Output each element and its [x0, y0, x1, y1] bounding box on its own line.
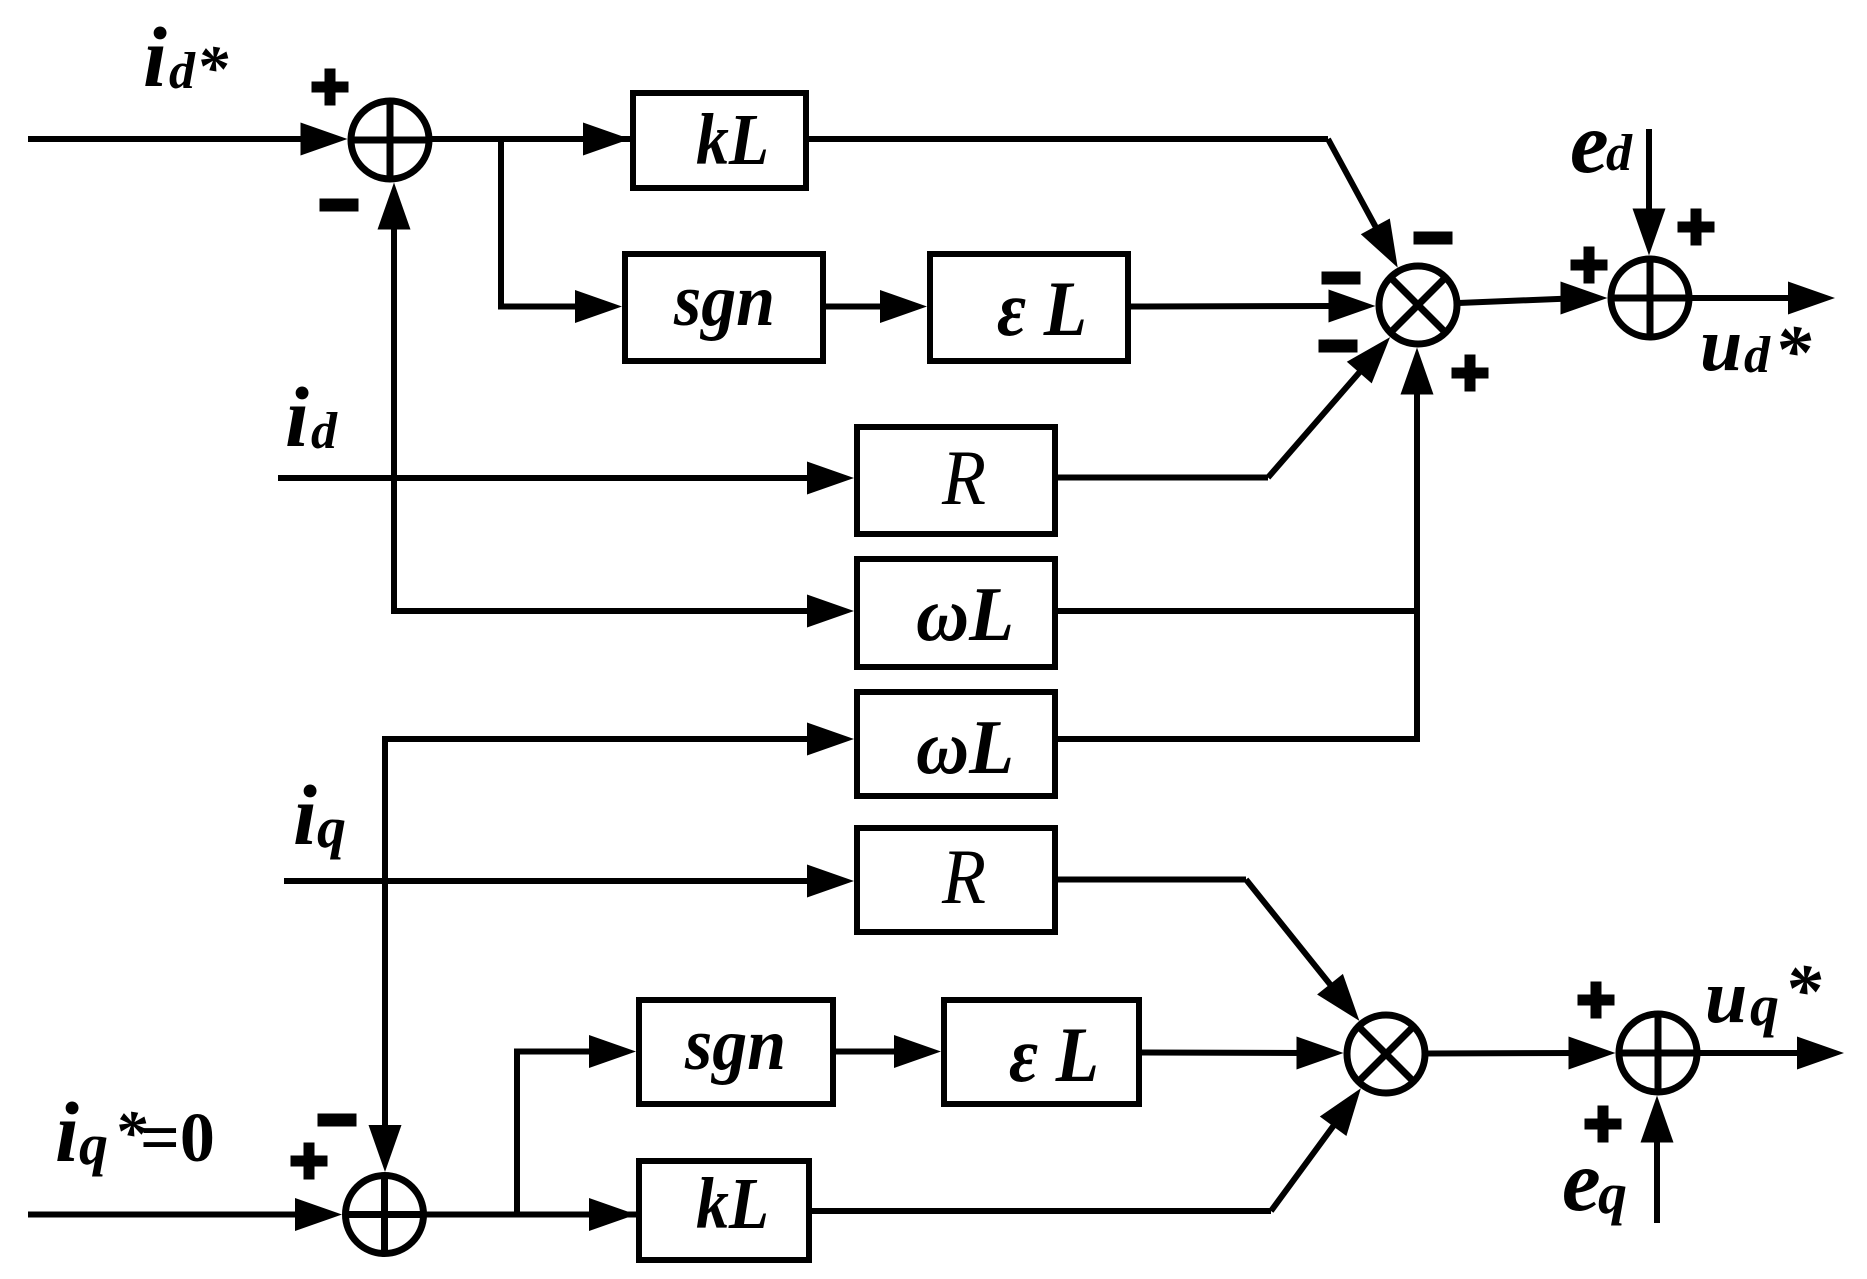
plus sign at S1 (i_d* input) — [312, 69, 349, 106]
block R1 (stator resistance, d-axis) — [857, 427, 1055, 534]
svg-text:*: * — [1774, 311, 1812, 393]
minus sign above M1 (kL1 input) — [1414, 232, 1453, 245]
wire i_q input into R2 — [284, 865, 854, 898]
svg-text:R: R — [941, 434, 986, 521]
wire u_q* output from A2 — [1697, 1037, 1844, 1070]
block epsilon-L2 (switching gain, q-axis) — [944, 1000, 1139, 1104]
svg-text:e: e — [1562, 1132, 1601, 1229]
wire kL2 output to M2 (diagonal input) — [812, 1088, 1361, 1211]
wire R2 output to M2 (diagonal input) — [1058, 880, 1359, 1021]
plus sign right of e_d arrow at A1 — [1678, 209, 1715, 246]
wire u_d* output from A1 — [1689, 282, 1835, 315]
svg-text:ωL: ωL — [916, 571, 1014, 657]
plus sign upper left of A2 (M2 input) — [1578, 982, 1615, 1019]
svg-text:*: * — [1784, 950, 1822, 1032]
label e_q (q-axis back-EMF) — [1562, 1132, 1627, 1229]
wire i_d branch down to omegaL1 — [394, 478, 854, 628]
multiplier junction M2 — [1347, 1015, 1425, 1093]
svg-text:=0: =0 — [140, 1100, 215, 1177]
wire branch from S2 output up to sgn2 — [517, 1035, 636, 1215]
wire omegaL2 output to merge vertical — [1058, 736, 1420, 742]
minus sign left of M1 upper (epsilonL1 input) — [1322, 272, 1361, 285]
svg-text:kL: kL — [696, 99, 769, 180]
svg-text:i: i — [55, 1084, 79, 1180]
wire i_q branch down into S2 minus input — [369, 881, 402, 1172]
wire M1 output into adder A1 — [1459, 282, 1608, 315]
wire S2 output to kL2 — [424, 1198, 639, 1231]
svg-text:q: q — [1750, 973, 1779, 1038]
svg-text:d: d — [1606, 125, 1633, 182]
svg-text:d: d — [169, 43, 196, 100]
wire i_d* input into S1 — [28, 123, 348, 156]
wire branch from S1 output down to sgn1 — [501, 139, 622, 323]
svg-text:kL: kL — [696, 1163, 769, 1244]
plus sign left of A1 (M1 input) — [1571, 247, 1608, 284]
svg-text:i: i — [143, 9, 167, 105]
svg-text:u: u — [1700, 303, 1742, 387]
adder junction A1 — [1611, 259, 1689, 337]
block sgn2 (sign function, q-axis) — [639, 1000, 833, 1104]
wire e_q input up into A2 — [1641, 1096, 1674, 1224]
block kL2 (sliding-mode gain, q-axis) — [639, 1161, 809, 1260]
svg-text:u: u — [1705, 955, 1747, 1039]
svg-text:e: e — [1570, 94, 1609, 191]
svg-text:d: d — [1744, 327, 1771, 384]
svg-text:sgn: sgn — [684, 1004, 786, 1086]
summing junction S2 — [346, 1176, 424, 1254]
adder junction A2 — [1619, 1014, 1697, 1092]
svg-text:i: i — [293, 767, 317, 863]
svg-text:*: * — [196, 32, 229, 103]
label u_d* (d-axis voltage reference) — [1700, 303, 1812, 393]
wire epsilonL1 output to M1 (minus input) — [1131, 290, 1376, 323]
wire i_d input into R1 — [278, 462, 854, 495]
svg-text:q: q — [79, 1112, 108, 1177]
wire M2 output into adder A2 — [1427, 1037, 1616, 1070]
label i_d (d-axis current feedback) — [285, 369, 338, 465]
wire S1 output to kL1 — [429, 123, 632, 156]
svg-text:ε L: ε L — [1009, 1011, 1099, 1098]
wire omegaL merge vertical up into M1 (plus input) — [1401, 348, 1434, 743]
plus sign below right of M1 (omegaL input) — [1452, 355, 1489, 392]
wire R1 output to M1 (plus input, diagonal) — [1058, 337, 1390, 477]
label i_d* (d-axis current reference) — [143, 9, 229, 105]
wire sgn2 to epsilonL2 — [836, 1035, 941, 1068]
svg-text:R: R — [941, 833, 986, 920]
multiplier junction M1 — [1379, 266, 1457, 344]
wire kL1 output to multiplier M1 (minus input) — [809, 139, 1398, 268]
block omegaL2 (cross-coupling inductance, i_q path) — [857, 692, 1055, 796]
wire omegaL1 output to merge vertical — [1058, 608, 1420, 614]
block epsilon-L1 (switching gain, d-axis) — [930, 254, 1128, 361]
label u_q* (q-axis voltage reference) — [1705, 950, 1822, 1039]
block omegaL1 (cross-coupling inductance, i_d path) — [857, 559, 1055, 667]
block kL1 (sliding-mode gain, d-axis) — [633, 93, 806, 188]
label e_d (d-axis back-EMF) — [1570, 94, 1633, 191]
wire i_q branch up and right to omegaL2 — [385, 723, 854, 882]
summing junction S1 — [351, 101, 429, 179]
plus sign lower left of A2 (e_q input) — [1585, 1106, 1622, 1143]
svg-text:q: q — [317, 795, 346, 860]
wire epsilonL2 output to M2 — [1142, 1037, 1344, 1070]
wire i_q*=0 input into S2 — [28, 1198, 342, 1231]
svg-text:q: q — [1598, 1161, 1627, 1226]
label i_q*=0 (q-axis current reference) — [55, 1084, 215, 1180]
svg-text:d: d — [311, 403, 338, 460]
svg-text:ε L: ε L — [997, 265, 1087, 352]
minus sign at S2 (i_q feedback input) — [318, 1114, 357, 1127]
svg-text:i: i — [285, 369, 309, 465]
minus sign left of M1 lower — [1319, 340, 1358, 353]
block R2 (stator resistance, q-axis) — [857, 828, 1055, 932]
minus sign at S1 (i_d feedback input) — [320, 199, 359, 212]
block sgn1 (sign function, d-axis) — [625, 254, 823, 361]
svg-text:ωL: ωL — [916, 704, 1014, 790]
plus sign at S2 (i_q* input) — [291, 1143, 328, 1180]
wire e_d input down into A1 — [1633, 129, 1666, 256]
wire i_d branch up into S1 minus input — [378, 183, 411, 479]
svg-text:sgn: sgn — [673, 260, 775, 342]
label i_q (q-axis current feedback) — [293, 767, 346, 863]
wire sgn1 to epsilonL1 — [826, 290, 927, 323]
